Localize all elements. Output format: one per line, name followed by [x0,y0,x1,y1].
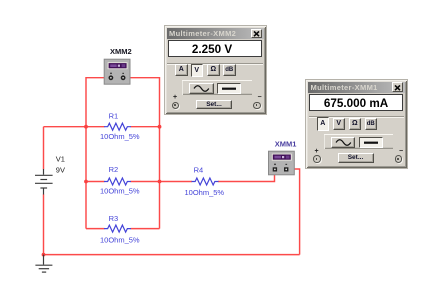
wire: XMM1 right lead down to bottom rail [289,169,300,255]
XMM2 minus mark [122,72,124,74]
XMM2 right terminal [121,75,126,80]
resistor R2 [104,178,131,185]
node A junction dot (left bus / R1) [84,125,88,129]
node C junction dot (left bus / R2) [84,180,88,184]
svg-text:10Ohm_5%: 10Ohm_5% [185,188,225,197]
XMM1 AC sine button [331,137,356,148]
multimeter icon XMM1 [269,151,295,175]
svg-text:XMM2: XMM2 [110,47,132,56]
XMM2 DC line button pressed [217,83,241,94]
XMM1 panel title bar [308,82,405,93]
XMM2 button V pressed [191,64,204,78]
XMM1 button A pressed [317,117,330,131]
XMM2 Set button [196,100,232,110]
XMM2 minus terminal label [258,96,262,100]
wire: XMM2 right lead and right parallel bus [123,78,159,229]
resistor R4 [192,178,219,185]
XMM1 button V [333,118,346,130]
svg-text:R3: R3 [109,214,119,223]
multimeter panel window XMM1 [306,80,407,168]
XMM1 right terminal [284,167,288,171]
wire: bottom rail [44,254,300,256]
wire: XMM2 left lead and left parallel bus [86,78,111,229]
svg-text:10Ohm_5%: 10Ohm_5% [100,236,140,245]
XMM2 left terminal [109,75,114,80]
XMM1 DC line button pressed [359,137,383,148]
XMM2 plus socket [172,102,180,110]
XMM2 button A [175,64,188,76]
multimeter panel window XMM2 [165,26,266,114]
wire: top rail from V1 to node A [44,126,87,128]
svg-text:9V: 9V [56,166,65,175]
XMM1 wave buttons tray [324,134,394,149]
XMM1 button dB [365,118,378,130]
XMM2 panel display 2.250 V [168,40,262,57]
svg-text:10Ohm_5%: 10Ohm_5% [100,132,140,141]
XMM1 plus socket [313,155,321,163]
resistor R3 [104,225,131,232]
wire: R2 row leads and run to R4 and XMM1 [86,171,275,182]
wire: R3 row leads [86,228,160,230]
XMM2 AC sine button [189,83,214,94]
XMM2 plus mark [110,73,112,75]
XMM1 panel display 675.000 mA [309,94,403,111]
node D junction dot (right bus / R2-R4) [158,180,162,184]
XMM2 panel title bar [167,28,264,39]
node B junction dot (right bus / R1) [158,125,162,129]
XMM2 wave buttons tray [182,80,252,95]
multimeter icon XMM2 [104,59,130,84]
XMM1 plus terminal label [315,150,319,154]
svg-text:R2: R2 [109,165,119,174]
XMM1 Set button [338,153,374,163]
XMM1 minus terminal label [399,150,403,154]
XMM2 button ohm [207,64,220,76]
battery V1 [35,169,53,195]
resistor R1 [104,123,131,130]
XMM2 panel close button [251,29,262,39]
battery V1 value labels [56,155,65,175]
svg-text:R1: R1 [109,111,119,120]
XMM2 button dB [223,64,236,76]
XMM1 panel close button [392,82,403,92]
node E junction dot (bottom rail / ground) [42,253,46,257]
XMM2 minus socket [253,102,261,110]
XMM1 left terminal [273,167,277,171]
wire: R1 row leads [86,126,160,128]
XMM1 groupbox ridge [309,116,405,118]
XMM1 minus socket [395,155,403,163]
XMM2 plus terminal label [173,96,177,100]
ground [35,255,52,273]
XMM1 button ohm [349,118,362,130]
svg-text:XMM1: XMM1 [275,140,297,149]
svg-text:R4: R4 [194,165,204,174]
svg-text:V1: V1 [56,155,65,164]
XMM2 groupbox ridge [167,63,263,65]
XMM1 plus mark [274,164,276,166]
XMM1 minus mark [285,163,287,165]
svg-text:10Ohm_5%: 10Ohm_5% [100,187,140,196]
wire: left bus from top rail to battery and battery to bottom rail [43,127,45,255]
